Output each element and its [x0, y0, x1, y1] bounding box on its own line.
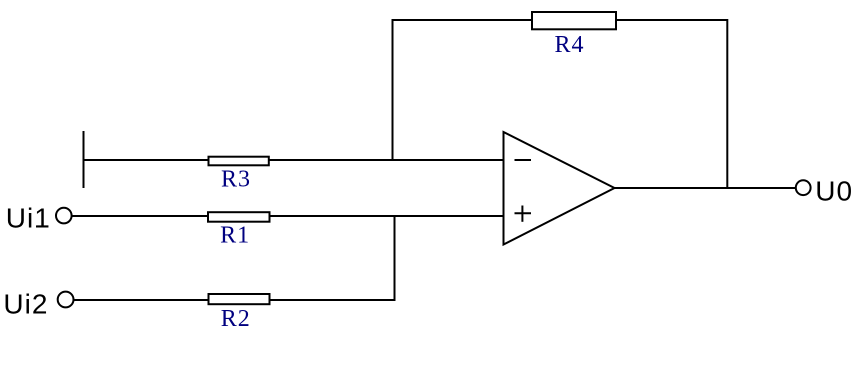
resistor R2: [209, 294, 270, 304]
label Ui2: [3, 288, 48, 319]
label R4: [554, 32, 584, 58]
node U0: output terminal circle: [796, 180, 811, 195]
svg-text:R2: R2: [221, 306, 251, 332]
label R2: [221, 306, 251, 332]
wire: feedback right vertical (top node down to output line): [726, 19, 728, 189]
svg-text:Ui2: Ui2: [3, 288, 48, 319]
label R1: [220, 223, 250, 249]
wire: Ui2 horizontal line (R2 line): [74, 299, 396, 301]
terminal stub: open left terminal of R3: [83, 131, 85, 188]
svg-text:R1: R1: [220, 223, 250, 249]
resistor R1: [208, 212, 270, 222]
label U0: [815, 175, 853, 206]
wire: non-inverting input line (R1 line): [72, 215, 506, 217]
wire: inverting input line (R3 line): [83, 159, 505, 161]
resistor R4: [532, 12, 616, 29]
wire: R2 vertical riser joining non-inverting input line: [394, 215, 396, 301]
svg-text:Ui1: Ui1: [6, 203, 51, 234]
node Ui2: input terminal circle: [58, 292, 74, 308]
svg-text:U0: U0: [815, 175, 853, 206]
wire: feedback top horizontal: [392, 19, 729, 21]
svg-text:R3: R3: [221, 166, 251, 192]
op-amp U1: [504, 132, 615, 245]
node Ui1: input terminal circle: [56, 208, 72, 224]
label Ui1: [6, 203, 51, 234]
label R3: [221, 166, 251, 192]
resistor R3: [209, 157, 269, 166]
svg-text:R4: R4: [554, 32, 584, 58]
wire: output line: [613, 187, 797, 189]
wire: feedback left vertical (top node down to inverting input line): [392, 19, 394, 161]
